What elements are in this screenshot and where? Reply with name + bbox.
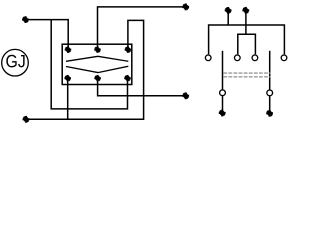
node: coil terminal 1: [225, 7, 232, 14]
front contact circle 1: [205, 55, 211, 61]
node: top-right terminal: [182, 4, 189, 11]
box pin top-right: [125, 46, 131, 53]
wire: right movable contact arm: [269, 51, 271, 90]
wire: top-left terminal to box top-left pin: [26, 20, 69, 50]
movable contact circle left: [220, 90, 226, 96]
transformer box: [62, 44, 132, 84]
wire: top-right terminal to box top-center pin: [98, 7, 186, 50]
crossing jumper lower polyline: [66, 66, 128, 72]
node: right armature terminal: [266, 110, 273, 117]
node: coil terminal 2: [242, 7, 249, 14]
mechanical linkage dashed lines: [223, 73, 270, 77]
relay GJ circle: [2, 49, 29, 76]
box pin top-left: [65, 46, 72, 53]
wire: coil terminal 1 stem: [227, 10, 229, 25]
node: left armature terminal: [219, 110, 226, 117]
wire: top bus with end drops to outer front contacts: [209, 25, 285, 54]
wire: branch down from top-left wire, across bottom, up to box bottom-right pin: [51, 20, 127, 109]
crossing jumper upper polyline: [66, 56, 128, 61]
front contact circle 2: [234, 55, 240, 61]
box pin top-center: [94, 46, 101, 53]
wire: mid-right terminal to box bottom-center pin: [98, 78, 186, 96]
wire: bottom-left terminal across, up right side, over to box top-right pin: [26, 20, 144, 119]
box pin bottom-right: [124, 75, 131, 82]
front contact circle 4: [281, 55, 287, 61]
box pin bottom-center: [94, 75, 101, 82]
front contact circle 3: [252, 55, 258, 61]
node: top-left terminal: [22, 16, 29, 23]
node: mid-right terminal: [182, 92, 189, 99]
wire: coil terminal 2 stem: [245, 10, 247, 34]
wire: inner bracket with drops to inner front contacts: [238, 34, 256, 54]
box pin bottom-left: [64, 75, 71, 82]
relay GJ label (outlined text): [6, 55, 24, 68]
wire: left movable contact arm: [222, 51, 224, 90]
right contact diagram: [209, 10, 285, 110]
movable contact circle right: [267, 90, 273, 96]
node: bottom-left terminal: [23, 116, 30, 123]
wire: box bottom-left pin down to bottom wire: [67, 78, 69, 119]
